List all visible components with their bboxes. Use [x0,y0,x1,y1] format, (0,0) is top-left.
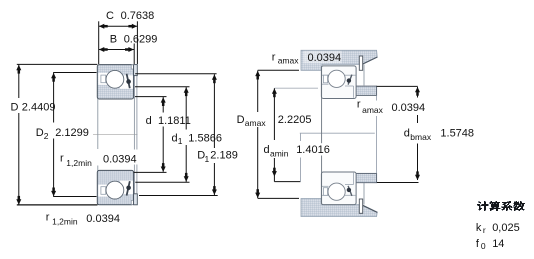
svg-text:0.0394: 0.0394 [392,102,426,114]
svg-text:2: 2 [44,131,49,141]
svg-text:D: D [11,102,19,114]
svg-text:amax: amax [245,118,267,128]
svg-text:14: 14 [492,238,504,250]
svg-text:0.6299: 0.6299 [124,33,158,45]
svg-text:1,2min: 1,2min [66,158,92,168]
svg-text:2.189: 2.189 [210,150,238,162]
svg-text:1.5748: 1.5748 [440,128,474,140]
svg-text:2.4409: 2.4409 [22,102,56,114]
svg-text:2.2205: 2.2205 [278,114,312,126]
svg-text:r: r [483,225,486,235]
svg-text:d: d [404,128,410,140]
svg-text:amax: amax [362,105,384,115]
svg-text:1,2min: 1,2min [52,217,78,227]
svg-text:f: f [476,238,480,250]
svg-text:D: D [237,114,245,126]
svg-text:d: d [264,144,270,156]
svg-text:0.0394: 0.0394 [103,154,137,166]
svg-text:bmax: bmax [410,132,432,142]
svg-text:0: 0 [481,241,486,251]
svg-text:1.5866: 1.5866 [188,132,222,144]
svg-text:1: 1 [178,136,183,146]
svg-text:r: r [272,52,276,64]
svg-text:1.4016: 1.4016 [296,144,330,156]
svg-text:C: C [106,10,114,22]
svg-text:amax: amax [278,56,300,66]
svg-text:r: r [46,211,50,223]
svg-text:r: r [357,98,361,110]
svg-text:0.0394: 0.0394 [308,52,342,64]
svg-text:B: B [110,33,117,45]
svg-text:k: k [476,222,482,234]
svg-text:0.0394: 0.0394 [86,213,120,225]
svg-text:r: r [60,152,64,164]
svg-text:0,025: 0,025 [492,222,520,234]
svg-text:amin: amin [270,148,289,158]
svg-text:D: D [36,127,44,139]
svg-text:d: d [146,115,152,127]
svg-text:1: 1 [205,154,210,164]
svg-text:0.7638: 0.7638 [121,10,155,22]
svg-text:2.1299: 2.1299 [55,127,89,139]
